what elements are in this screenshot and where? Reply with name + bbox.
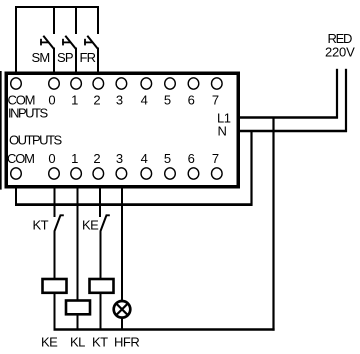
- svg-text:KL: KL: [70, 335, 85, 350]
- input terminal 0: [49, 78, 60, 89]
- wire COM output drop: [15, 187, 17, 206]
- PLC box: [6, 73, 238, 187]
- wire SM lower stub: [53, 48, 55, 73]
- wire L1 horizontal: [240, 116, 338, 118]
- switch SP: [62, 36, 76, 49]
- svg-text:KT: KT: [33, 218, 49, 233]
- svg-text:HFR: HFR: [114, 335, 139, 350]
- output terminal 6: [188, 168, 199, 179]
- svg-text:3: 3: [116, 151, 123, 166]
- svg-text:1: 1: [71, 151, 78, 166]
- wire output0 lower: [54, 293, 56, 331]
- svg-text:2: 2: [93, 151, 100, 166]
- svg-text:0: 0: [48, 151, 55, 166]
- svg-text:INPUTS: INPUTS: [8, 106, 49, 121]
- wire common bus below box: [15, 203, 253, 206]
- output terminal 2: [93, 168, 104, 179]
- svg-text:SP: SP: [57, 50, 73, 65]
- wire output0 upper: [54, 187, 56, 217]
- output terminal 4: [141, 168, 152, 179]
- input terminal 6: [188, 78, 199, 89]
- wire SP upper stub: [75, 6, 77, 34]
- coil KE: [43, 279, 67, 293]
- wire SM upper stub: [53, 6, 55, 34]
- wire output1 lower: [77, 315, 79, 331]
- wire output1 upper: [77, 187, 79, 301]
- wire output0 middle: [54, 232, 56, 279]
- svg-text:N: N: [218, 124, 227, 139]
- svg-text:2: 2: [93, 93, 100, 108]
- svg-text:1: 1: [71, 93, 78, 108]
- svg-text:FR: FR: [80, 50, 96, 65]
- svg-text:COM: COM: [7, 151, 34, 166]
- input terminal 3: [116, 78, 127, 89]
- contact KE: [100, 215, 110, 231]
- svg-text:7: 7: [212, 93, 219, 108]
- contact KT: [54, 215, 64, 231]
- wire output3 upper: [121, 187, 123, 302]
- output terminal 3: [116, 168, 127, 179]
- wire FR lower stub: [97, 48, 99, 73]
- wire SP lower stub: [75, 48, 77, 73]
- input terminal 2: [93, 78, 104, 89]
- input terminal 1: [71, 78, 82, 89]
- switch FR: [84, 36, 98, 49]
- svg-text:SM: SM: [32, 50, 50, 65]
- output terminal 7: [212, 168, 223, 179]
- wire output2 middle: [100, 232, 102, 279]
- wire RED left vertical: [336, 69, 338, 119]
- svg-text:3: 3: [116, 93, 123, 108]
- svg-text:KT: KT: [92, 335, 108, 350]
- wire COM drop left: [15, 6, 17, 72]
- svg-text:KE: KE: [82, 218, 99, 233]
- output terminal 5: [165, 168, 176, 179]
- wire output3 lower: [121, 317, 123, 331]
- output terminal 0: [49, 168, 60, 179]
- svg-text:5: 5: [164, 151, 171, 166]
- svg-text:4: 4: [141, 151, 148, 166]
- wire N branch down: [250, 130, 252, 206]
- wire output2 lower: [100, 293, 102, 331]
- left edge line: [0, 71, 2, 190]
- output terminal 1: [71, 168, 82, 179]
- svg-text:6: 6: [188, 151, 195, 166]
- input terminal COM: [11, 78, 22, 89]
- output terminal COM: [11, 168, 22, 179]
- wire bottom bus: [54, 328, 275, 331]
- wire RED right vertical: [345, 69, 347, 132]
- coil KL: [66, 301, 90, 315]
- svg-text:OUTPUTS: OUTPUTS: [9, 133, 62, 148]
- wire FR upper stub: [97, 6, 99, 34]
- svg-text:4: 4: [141, 93, 148, 108]
- svg-text:6: 6: [188, 93, 195, 108]
- svg-text:0: 0: [48, 93, 55, 108]
- svg-text:7: 7: [212, 151, 219, 166]
- input terminal 7: [212, 78, 223, 89]
- input terminal 5: [165, 78, 176, 89]
- wire L1 branch down: [272, 117, 274, 331]
- wire top bus: [15, 6, 99, 8]
- wire N horizontal: [240, 130, 347, 132]
- svg-text:5: 5: [164, 93, 171, 108]
- switch SM: [40, 36, 54, 49]
- lamp HFR: [114, 301, 131, 318]
- coil KT: [90, 279, 114, 293]
- input terminal 4: [141, 78, 152, 89]
- svg-text:KE: KE: [41, 335, 58, 350]
- svg-text:220V: 220V: [325, 45, 355, 60]
- wire output2 upper: [99, 187, 101, 217]
